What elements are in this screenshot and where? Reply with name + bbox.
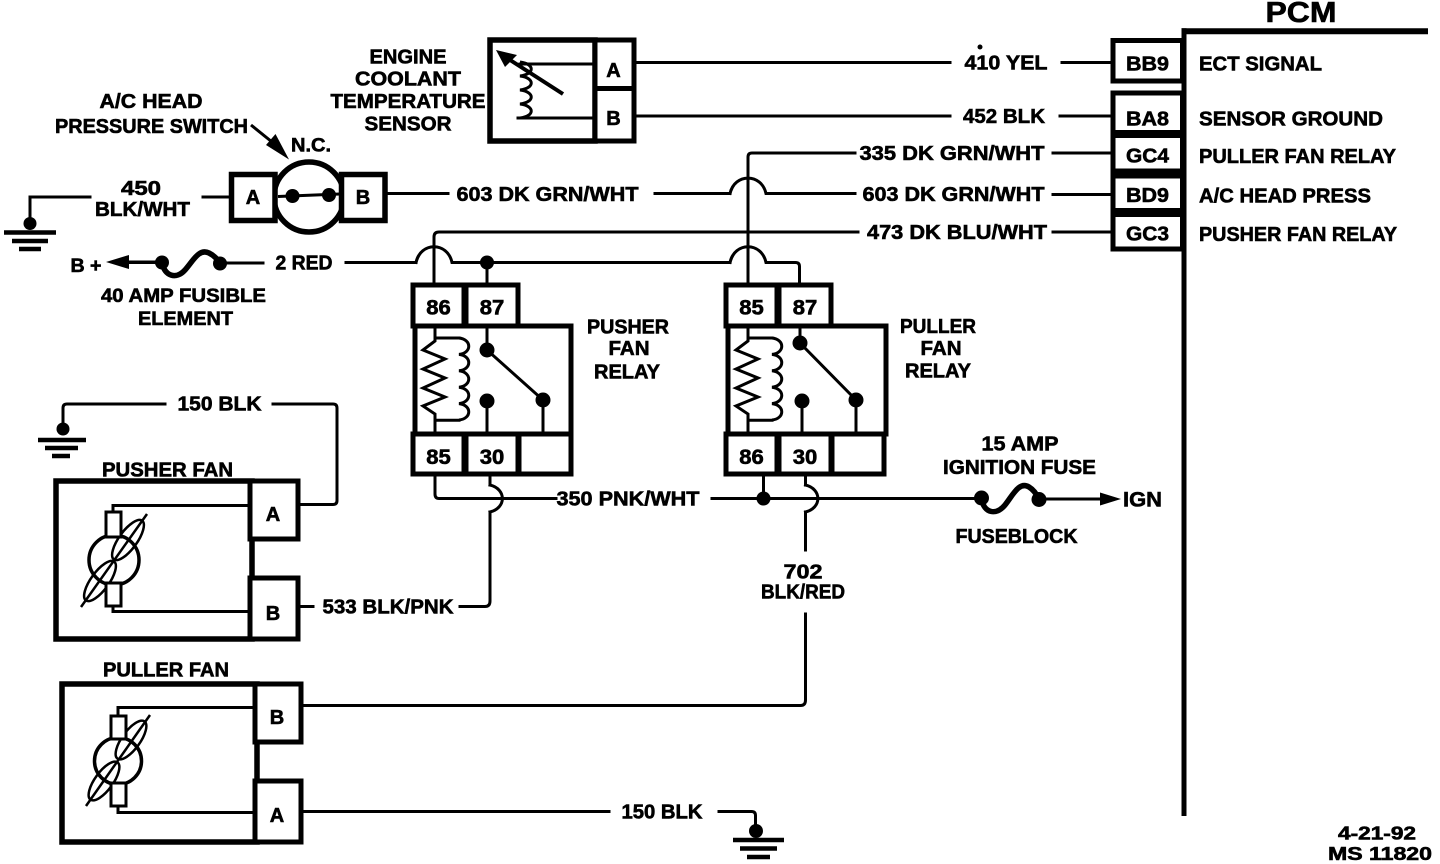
svg-text:85: 85 (426, 446, 451, 469)
label pointer arrow (251, 125, 277, 146)
puller fan blade axis (86, 715, 150, 806)
ground G2 (38, 440, 86, 456)
PCM connector U1 (1113, 0, 1432, 864)
ECT pin B box (595, 89, 634, 142)
pusher fan motor bottom cap (106, 583, 121, 606)
relay K1 switch dot NO (536, 393, 551, 408)
pusher fan blade lower (79, 556, 122, 605)
A/C head pressure switch S1 (4, 91, 385, 249)
wire 702 BLK/RED : relay K2 30 to puller fan B (301, 474, 845, 706)
switch pin B box (342, 175, 386, 221)
wire 450 to pin A (203, 196, 231, 199)
crossover hump over 335 wire (730, 247, 800, 285)
relay K2 switch arm (800, 326, 856, 434)
PCM left edge (1182, 28, 1187, 816)
relay K2 terminal 85 box (726, 285, 777, 326)
wire 452 BLK : ECT B to BA8 (634, 105, 1113, 128)
svg-text:RELAY: RELAY (594, 362, 661, 384)
PCM top edge (1182, 28, 1429, 34)
puller fan motor circle (95, 738, 142, 785)
svg-text:A/C HEAD PRESS: A/C HEAD PRESS (1199, 185, 1371, 208)
svg-text:PULLER FAN: PULLER FAN (103, 660, 229, 682)
crossover hump over 335 wire (730, 178, 855, 193)
pusher fan motor top cap (106, 512, 121, 537)
puller fan pin A box (255, 781, 301, 842)
svg-text:A: A (606, 60, 620, 82)
svg-text:2 RED: 2 RED (276, 253, 333, 275)
svg-text:85: 85 (739, 297, 764, 320)
svg-text:PUSHER FAN: PUSHER FAN (102, 460, 233, 482)
puller fan motor top cap (111, 716, 126, 739)
wire motor to pin A (113, 506, 250, 513)
svg-text:A: A (270, 805, 284, 827)
pusher fan motor circle (89, 535, 139, 585)
pusher fan relay K1 (413, 285, 670, 474)
wire arrow to fusible (120, 261, 162, 265)
node 2RED to K1 87 (480, 256, 494, 270)
pin GC4 box (1113, 136, 1183, 172)
switch contact dot left (286, 189, 300, 203)
relay K1 terminal 86 box (413, 285, 464, 326)
crossover hump over 473 wire (416, 247, 730, 263)
puller fan motor bottom cap (111, 783, 126, 806)
fuse squiggle (982, 486, 1040, 512)
puller fan body box (62, 684, 257, 842)
svg-text:GC3: GC3 (1126, 223, 1169, 246)
svg-text:B: B (606, 108, 620, 130)
svg-text:SENSOR: SENSOR (365, 114, 453, 136)
relay K2 terminal 30 box (779, 434, 831, 474)
relay K2 terminal 86 box (726, 434, 777, 474)
svg-text:FAN: FAN (921, 338, 962, 360)
relay K1 spare terminal box (519, 434, 571, 474)
svg-text:BD9: BD9 (1126, 184, 1169, 207)
fuse dot left (974, 491, 989, 506)
svg-text:BLK/RED: BLK/RED (761, 581, 845, 604)
svg-text:30: 30 (793, 446, 818, 469)
svg-text:MS 11820: MS 11820 (1328, 844, 1432, 864)
fusible element squiggle (162, 252, 220, 276)
ECT sensor body box (490, 40, 595, 141)
ECT pin A box (595, 40, 634, 89)
puller fan pin B box (255, 684, 301, 742)
puller fan M2 (62, 660, 301, 843)
wire 603 DK GRN/WHT : switch B to BD9 (385, 178, 1113, 206)
svg-text:87: 87 (480, 297, 505, 320)
svg-text:PRESSURE SWITCH: PRESSURE SWITCH (55, 116, 248, 138)
svg-text:4-21-92: 4-21-92 (1338, 824, 1416, 844)
pusher fan pin B box (250, 578, 298, 639)
svg-text:A/C HEAD: A/C HEAD (100, 91, 203, 113)
ECT internal top lead (520, 63, 593, 66)
pin BD9 box (1113, 176, 1183, 211)
relay K2 body box (728, 326, 886, 434)
switch circle (274, 162, 344, 232)
svg-text:452 BLK: 452 BLK (963, 105, 1045, 128)
svg-text:ECT SIGNAL: ECT SIGNAL (1199, 53, 1322, 76)
svg-text:40 AMP FUSIBLE: 40 AMP FUSIBLE (101, 285, 266, 307)
relay K1 terminal 85 box (413, 434, 464, 474)
wire 473 DK BLU/WHT : GC3 to relay K1 86 (434, 221, 1113, 285)
svg-text:PULLER: PULLER (900, 316, 977, 338)
relay K1 coil right bumps (459, 338, 469, 420)
node 350 to K2 86 (757, 492, 771, 506)
B+ arrowhead (106, 255, 129, 269)
svg-text:A: A (266, 504, 280, 526)
wire motor to pin A (118, 806, 255, 813)
pin BB9 box (1113, 41, 1183, 82)
svg-text:150 BLK: 150 BLK (178, 394, 263, 416)
wire 450 to ground (30, 197, 90, 228)
wire 335 DK GRN/WHT : GC4 to relay K2 85 (748, 142, 1113, 285)
svg-text:30: 30 (480, 446, 505, 469)
svg-text:FUSEBLOCK: FUSEBLOCK (956, 526, 1079, 548)
svg-text:603 DK GRN/WHT: 603 DK GRN/WHT (457, 183, 639, 206)
svg-text:IGNITION FUSE: IGNITION FUSE (943, 457, 1096, 479)
svg-text:BB9: BB9 (1126, 53, 1169, 76)
switch contact line (278, 194, 340, 197)
scan speck (978, 45, 983, 50)
relay K2 terminal 87 box (779, 285, 831, 326)
pusher fan blade axis (81, 514, 147, 607)
svg-text:TEMPERATURE: TEMPERATURE (331, 91, 486, 113)
svg-text:15 AMP: 15 AMP (982, 434, 1059, 456)
relay K1 body box (415, 326, 571, 434)
puller fan relay K2 (726, 285, 977, 474)
pusher fan blade upper (107, 515, 150, 564)
svg-text:A: A (246, 187, 260, 209)
svg-text:BLK/WHT: BLK/WHT (95, 199, 190, 221)
pusher fan body box (56, 481, 252, 639)
engine coolant temperature sensor RT1 (331, 40, 635, 141)
pusher fan pin A box (250, 481, 298, 539)
wire 350 PNK/WHT : relay85/86 to ignition fuse (435, 474, 975, 511)
pusher fan M1 (56, 460, 298, 640)
svg-text:150 BLK: 150 BLK (622, 802, 704, 824)
pin GC3 box (1113, 215, 1183, 250)
svg-text:COOLANT: COOLANT (355, 69, 461, 91)
ECT variable arrow (507, 58, 563, 94)
fuse dot right (1032, 492, 1047, 507)
wire 2 RED bus : fusible element to relay 87 terminals (346, 247, 800, 285)
svg-text:450: 450 (121, 178, 161, 200)
svg-text:86: 86 (426, 297, 451, 320)
relay K2 coil joins (748, 338, 772, 420)
relay K2 spare terminal box (832, 434, 884, 474)
wire 533 BLK/PNK : relay K1 30 to pusher fan B (299, 474, 502, 619)
ground G1 (4, 233, 56, 250)
puller fan blade lower (83, 757, 125, 805)
ground G1 dot (24, 217, 37, 230)
relay K1 switch arm (487, 326, 543, 434)
switch contact dot right (322, 188, 336, 202)
fusible element dot right (213, 257, 227, 271)
fusible element dot left (155, 256, 169, 270)
relay K2 coil right bumps (772, 338, 782, 420)
relay K1 coil joins (435, 338, 459, 420)
svg-text:IGN: IGN (1123, 489, 1162, 512)
svg-text:PCM: PCM (1266, 0, 1337, 29)
svg-text:GC4: GC4 (1126, 145, 1170, 168)
svg-text:SENSOR GROUND: SENSOR GROUND (1199, 108, 1383, 131)
svg-text:533 BLK/PNK: 533 BLK/PNK (323, 596, 454, 619)
svg-text:B: B (356, 187, 370, 209)
puller fan blade upper (110, 716, 152, 764)
svg-text:PULLER FAN RELAY: PULLER FAN RELAY (1199, 145, 1396, 168)
svg-text:86: 86 (739, 446, 764, 469)
ground G3 (733, 840, 784, 857)
switch pin A box (232, 175, 276, 221)
relay K2 switch dot common (793, 336, 808, 351)
svg-text:PUSHER FAN RELAY: PUSHER FAN RELAY (1199, 223, 1397, 246)
battery feed B+ and fusible element F1 (71, 252, 333, 330)
svg-text:603 DK GRN/WHT: 603 DK GRN/WHT (863, 183, 1045, 206)
wire 410 YEL : ECT A to BB9 (634, 45, 1113, 75)
svg-text:ENGINE: ENGINE (370, 47, 447, 69)
relay K1 terminal 30 box (466, 434, 518, 474)
ground G3 dot (749, 824, 763, 838)
relay K1 coil left zigzag (423, 326, 445, 434)
ground G2 dot (57, 423, 70, 436)
svg-text:FAN: FAN (609, 338, 650, 360)
svg-text:350 PNK/WHT: 350 PNK/WHT (557, 488, 700, 511)
ECT internal bottom lead (518, 117, 593, 120)
relay K2 switch dot NC (795, 394, 810, 409)
ignition fuse F2 15 AMP (943, 434, 1162, 549)
relay K1 switch dot common (480, 343, 495, 358)
wire motor to pin B (118, 708, 255, 717)
svg-text:ELEMENT: ELEMENT (138, 308, 233, 330)
wire fuse to IGN (1046, 498, 1103, 501)
wire 150 BLK : pusher fan A to ground G2 (38, 394, 337, 505)
svg-text:PUSHER: PUSHER (587, 317, 670, 339)
relay K2 coil left zigzag (736, 326, 758, 434)
svg-text:RELAY: RELAY (905, 361, 972, 383)
relay K1 terminal 87 box (466, 285, 518, 326)
svg-text:B: B (266, 603, 280, 625)
svg-text:473 DK BLU/WHT: 473 DK BLU/WHT (867, 221, 1047, 244)
crossover hop over 350 wire (490, 485, 502, 512)
svg-text:87: 87 (793, 297, 818, 320)
svg-text:410 YEL: 410 YEL (965, 52, 1048, 75)
svg-text:335 DK GRN/WHT: 335 DK GRN/WHT (860, 142, 1045, 165)
svg-text:N.C.: N.C. (291, 136, 331, 157)
pin BA8 box (1113, 93, 1183, 133)
relay K1 switch dot NC (480, 394, 495, 409)
wire fusible to 2 RED (227, 262, 263, 265)
wire motor to pin B (113, 606, 250, 612)
svg-text:B +: B + (71, 256, 102, 277)
wire 150 BLK : puller fan A to ground G3 (301, 802, 784, 858)
ECT thermistor coil (520, 62, 531, 118)
svg-text:B: B (270, 707, 284, 729)
IGN arrowhead (1100, 493, 1121, 506)
svg-text:BA8: BA8 (1126, 108, 1169, 131)
relay K2 switch dot NO (849, 393, 864, 408)
crossover hop over 350 wire (806, 485, 818, 512)
